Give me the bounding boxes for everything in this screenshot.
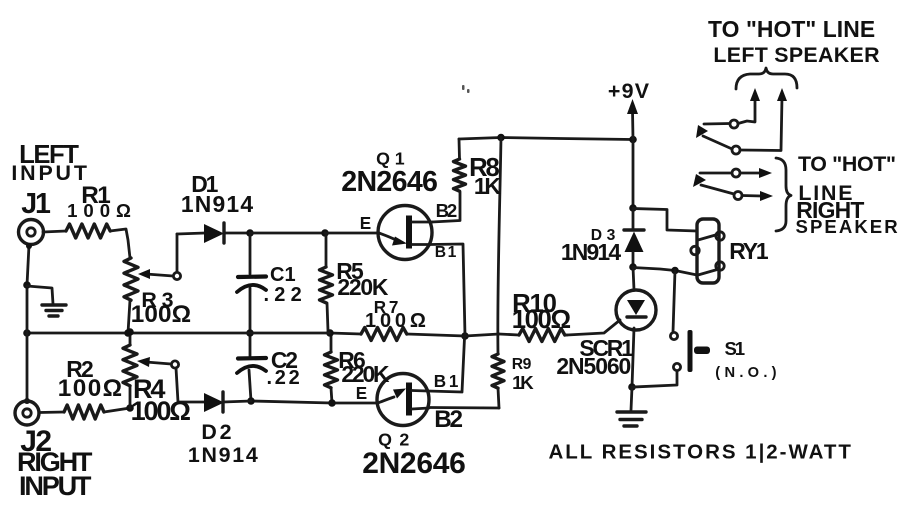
node relay bottom / S1 [671,267,679,275]
svg-text:2N2646: 2N2646 [341,166,437,198]
wire J1 tip to R1 [43,231,66,232]
svg-text:TO "HOT" LINE: TO "HOT" LINE [708,16,875,42]
svg-text:220K: 220K [337,274,388,300]
jack J1 [19,220,44,245]
svg-text:ALL RESISTORS 1|2-WATT: ALL RESISTORS 1|2-WATT [549,440,853,463]
UJT Q1 [378,206,432,260]
potentiometer R4 [123,332,137,408]
svg-text:1K: 1K [474,173,502,199]
node rail to R9 feed [497,134,505,142]
svg-text:100Ω: 100Ω [131,395,191,426]
svg-text:R9: R9 [512,356,532,373]
node relay/D3 top [629,204,637,212]
svg-text:100Ω: 100Ω [365,310,430,332]
wire R1 to R3 top [110,229,130,258]
potentiometer R3 [124,258,138,300]
svg-text:(N.O.): (N.O.) [715,365,781,381]
wire +9V down to relay node [632,140,635,209]
svg-text:B1: B1 [435,244,458,261]
wire to Q1 emitter [325,232,379,235]
wire node down to S1 top contact [673,271,675,333]
wire rail down to J2 [26,333,29,401]
resistor R9 [492,354,504,408]
+9V arrow [627,99,638,139]
pushbutton S1 [634,330,710,387]
wire +9V to R9 (crosses gate rail) [498,138,501,355]
node R6 bottom [328,399,336,407]
svg-text:B2: B2 [434,406,462,433]
svg-text:1N914: 1N914 [561,239,621,265]
wire J2 tip to R2 [39,411,64,414]
wire Q1 B2 to R8 [432,192,460,222]
svg-text:E: E [356,384,367,403]
resistor R1 [66,224,110,238]
stray ink specks [462,85,470,93]
wire node to R5 top [250,232,325,235]
node R6 top on common rail [326,329,334,337]
svg-text:+9V: +9V [608,79,650,103]
svg-text:C1: C1 [270,264,296,286]
wire relay bottom branch [633,268,697,276]
ground (SCR cathode) [617,383,646,426]
svg-text:TO "HOT": TO "HOT" [798,152,896,176]
svg-text:D2: D2 [201,420,234,444]
svg-text:.22: .22 [267,367,303,389]
svg-text:J1: J1 [21,188,51,220]
svg-text:INPUT: INPUT [11,161,89,185]
svg-text:100Ω: 100Ω [67,200,137,221]
resistor R10 [499,329,567,342]
jack J2 [15,401,39,425]
node C2 bottom / D2 output [247,397,255,405]
+9V supply rail [459,138,633,140]
svg-text:100Ω: 100Ω [512,306,571,334]
ground (input) [27,286,66,316]
wire relay top branch [633,209,697,232]
svg-text:E: E [360,214,371,233]
node D3 anode / SCR anode [629,263,637,271]
gate rail node [461,332,469,340]
resistor R8 [454,139,466,191]
svg-text:2N5060: 2N5060 [556,353,630,379]
capacitor C2 [237,333,266,401]
node R4 top on common rail [126,328,134,336]
wire wiper to D1 [176,234,179,272]
node rail J1 branch [23,329,31,337]
R4 wiper arrow [137,357,179,368]
svg-text:1N914: 1N914 [188,443,260,467]
R3 wiper arrow [138,269,181,280]
wire Q2 B1 up to gate node [428,338,465,392]
svg-text:1K: 1K [512,372,534,393]
resistor R5 [320,235,333,331]
node rail at +9V riser [629,136,637,144]
resistor R2 [64,405,104,419]
node C2 top on common rail [246,329,254,337]
svg-text:100Ω: 100Ω [131,301,191,328]
wire R2 to R4 bottom [104,408,130,412]
svg-text:LEFT SPEAKER: LEFT SPEAKER [713,43,880,67]
diode D2 [178,392,251,412]
wire gate rail R7 right [407,334,499,336]
wire J1 sleeve down [27,245,29,333]
node J1 ground branch [23,281,31,289]
wire R9 bottom to Q2 B2 [429,406,499,409]
resistor R7 [361,328,407,341]
common rail [27,332,330,335]
svg-text:.22: .22 [264,284,308,306]
diode D1 [177,223,250,243]
svg-text:100Ω: 100Ω [58,375,124,402]
relay contact set 1 (left speaker) [696,88,787,154]
node R4 bottom [126,404,134,412]
node: D1 output / C1 top [246,229,254,237]
wire Q2 emitter rail [251,401,378,403]
relay coil RY1 [691,219,724,283]
SCR1 [567,267,656,387]
svg-text:B2: B2 [436,200,457,221]
svg-text:INPUT: INPUT [19,470,92,501]
node R3 bottom [124,329,132,337]
resistor R6 [325,333,338,403]
UJT Q2 [377,374,429,426]
svg-text:S1: S1 [725,338,745,359]
svg-text:SPEAKER: SPEAKER [796,216,900,237]
wire wiper down to D2 [176,368,178,402]
node R5 top [321,229,329,237]
brace over left speaker arrows [736,68,797,89]
diode D3 [624,208,644,267]
wire R3 bottom to ground rail [128,300,130,333]
wire Q1 B1 down to gate node [430,244,465,336]
svg-text:B1: B1 [434,372,462,391]
capacitor C1 [237,235,266,331]
wire common rail to R7 [330,333,361,334]
brace right speaker [776,158,791,231]
svg-text:RY1: RY1 [729,238,769,264]
relay contact set 2 (right speaker) [693,168,773,201]
svg-text:1N914: 1N914 [181,191,254,217]
svg-text:2N2646: 2N2646 [362,447,465,480]
